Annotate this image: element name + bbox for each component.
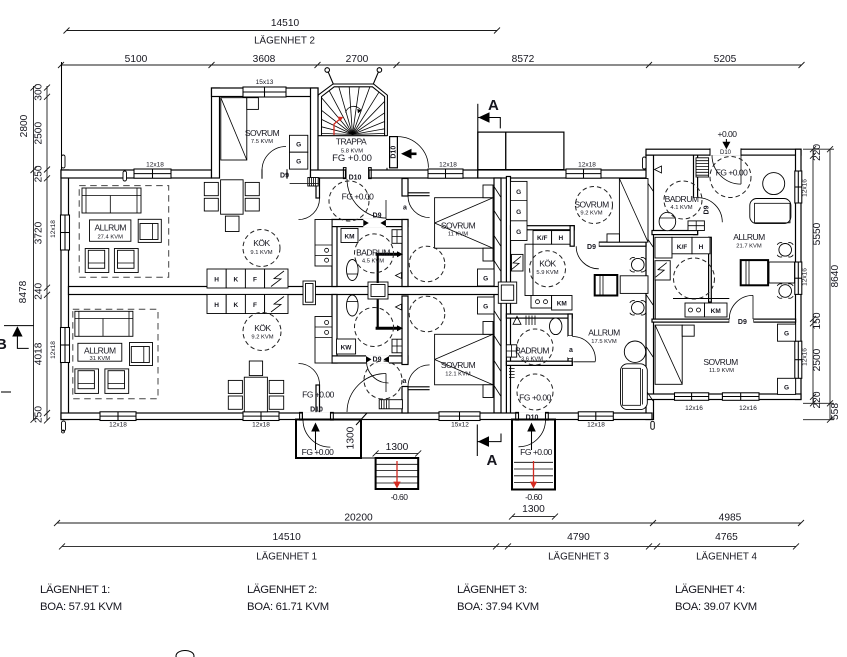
svg-text:12x18: 12x18: [50, 220, 57, 238]
svg-text:F: F: [253, 277, 257, 284]
svg-text:250: 250: [34, 165, 45, 182]
svg-text:12.1 KVM: 12.1 KVM: [445, 372, 471, 378]
svg-text:4.1 KVM: 4.1 KVM: [670, 205, 692, 211]
svg-text:FG +0.00: FG +0.00: [302, 447, 334, 457]
svg-text:12x16: 12x16: [802, 268, 809, 286]
svg-text:ALLRUM: ALLRUM: [588, 328, 620, 338]
svg-text:2800: 2800: [19, 114, 30, 137]
svg-text:FG +0.00: FG +0.00: [716, 168, 748, 178]
svg-text:BADRUM: BADRUM: [515, 346, 549, 356]
svg-text:2500: 2500: [34, 122, 45, 145]
svg-text:B: B: [0, 336, 7, 353]
svg-text:K: K: [233, 277, 238, 284]
svg-text:a: a: [403, 205, 407, 212]
svg-text:LÄGENHET 3:: LÄGENHET 3:: [457, 584, 527, 596]
svg-text:D10: D10: [720, 150, 732, 156]
svg-text:3608: 3608: [253, 54, 276, 65]
svg-text:BOA: 37.94 KVM: BOA: 37.94 KVM: [457, 601, 539, 613]
svg-text:14510: 14510: [271, 18, 300, 29]
svg-text:G: G: [296, 158, 301, 165]
svg-text:2500: 2500: [812, 348, 823, 371]
svg-text:-0.60: -0.60: [525, 492, 543, 502]
svg-text:20200: 20200: [344, 513, 373, 524]
svg-text:12x18: 12x18: [252, 422, 270, 429]
svg-text:LÄGENHET 1: LÄGENHET 1: [256, 552, 317, 563]
svg-text:H: H: [699, 244, 704, 251]
svg-text:9.2 KVM: 9.2 KVM: [251, 335, 273, 341]
svg-text:220: 220: [812, 144, 823, 161]
svg-text:F: F: [253, 302, 257, 309]
svg-text:KÖK: KÖK: [254, 323, 271, 333]
svg-text:A: A: [487, 452, 498, 469]
svg-text:BADRUM: BADRUM: [665, 194, 699, 204]
svg-text:12x18: 12x18: [439, 162, 457, 169]
svg-text:3.6 KVM: 3.6 KVM: [521, 357, 543, 363]
svg-text:D9: D9: [373, 212, 382, 219]
svg-text:D9: D9: [738, 319, 747, 326]
svg-text:12x16: 12x16: [802, 348, 809, 366]
svg-text:12x18: 12x18: [146, 162, 164, 169]
svg-text:ALLRUM: ALLRUM: [94, 223, 126, 233]
svg-text:KM: KM: [711, 308, 721, 315]
svg-text:3720: 3720: [34, 221, 45, 244]
svg-text:250: 250: [34, 406, 45, 423]
svg-text:4018: 4018: [34, 342, 45, 365]
svg-text:ALLRUM: ALLRUM: [733, 232, 765, 242]
svg-text:12x16: 12x16: [685, 405, 703, 412]
svg-text:G: G: [296, 142, 301, 149]
svg-text:12x18: 12x18: [587, 422, 605, 429]
svg-text:KÖK: KÖK: [253, 238, 270, 248]
svg-text:LÄGENHET 2:: LÄGENHET 2:: [247, 584, 317, 596]
svg-text:1300: 1300: [522, 504, 545, 515]
svg-text:A: A: [488, 97, 499, 114]
svg-text:D10: D10: [310, 406, 323, 413]
svg-text:BOA: 61.71 KVM: BOA: 61.71 KVM: [247, 601, 329, 613]
svg-text:21.7 KVM: 21.7 KVM: [736, 244, 762, 250]
svg-text:8640: 8640: [830, 265, 841, 288]
svg-text:150: 150: [812, 312, 823, 329]
svg-text:KÖK: KÖK: [539, 259, 556, 269]
svg-text:D10: D10: [349, 175, 362, 182]
svg-text:12x18: 12x18: [50, 341, 57, 359]
svg-text:D10: D10: [391, 146, 398, 159]
svg-text:FG +0.00: FG +0.00: [302, 390, 334, 400]
svg-text:SOVRUM: SOVRUM: [703, 357, 738, 367]
svg-text:TRAPPA: TRAPPA: [336, 137, 367, 147]
svg-text:5100: 5100: [125, 54, 148, 65]
svg-text:15x13: 15x13: [256, 79, 274, 86]
svg-text:FG +0.00: FG +0.00: [520, 447, 552, 457]
svg-text:BOA: 39.07 KVM: BOA: 39.07 KVM: [675, 601, 757, 613]
svg-text:KW: KW: [341, 345, 353, 352]
svg-text:11 KVM: 11 KVM: [448, 232, 468, 238]
svg-text:31 KVM: 31 KVM: [89, 356, 110, 362]
svg-text:-0.60: -0.60: [391, 492, 409, 502]
svg-text:D9: D9: [280, 172, 289, 179]
svg-text:1300: 1300: [346, 426, 357, 449]
svg-text:SOVRUM: SOVRUM: [441, 221, 476, 231]
svg-text:KM: KM: [344, 234, 354, 241]
svg-text:SOVRUM: SOVRUM: [574, 200, 609, 210]
svg-text:G: G: [483, 304, 488, 311]
svg-text:8572: 8572: [512, 54, 535, 65]
svg-text:5550: 5550: [812, 222, 823, 245]
svg-text:27.4 KVM: 27.4 KVM: [97, 234, 123, 240]
svg-text:KM: KM: [557, 301, 567, 308]
svg-text:H: H: [558, 235, 563, 242]
svg-text:8478: 8478: [18, 280, 29, 303]
svg-text:4985: 4985: [719, 513, 742, 524]
svg-text:G: G: [516, 209, 521, 216]
svg-text:FG +0.00: FG +0.00: [342, 192, 374, 202]
svg-text:15x12: 15x12: [451, 422, 469, 429]
svg-text:a: a: [569, 347, 573, 354]
svg-text:a: a: [403, 378, 407, 385]
svg-text:BADRUM: BADRUM: [356, 248, 390, 258]
svg-text:SOVRUM: SOVRUM: [441, 360, 476, 370]
svg-text:11.9 KVM: 11.9 KVM: [709, 368, 734, 374]
svg-text:12x18: 12x18: [109, 422, 127, 429]
svg-text:558: 558: [830, 403, 841, 420]
svg-text:7.5 KVM: 7.5 KVM: [251, 139, 273, 145]
svg-text:+0.00: +0.00: [717, 129, 737, 139]
svg-text:LÄGENHET 4: LÄGENHET 4: [696, 552, 757, 563]
svg-text:FG +0.00: FG +0.00: [519, 393, 551, 403]
svg-text:240: 240: [34, 282, 45, 299]
svg-text:220: 220: [812, 391, 823, 408]
svg-text:5.9 KVM: 5.9 KVM: [536, 270, 558, 276]
svg-text:12x18: 12x18: [578, 162, 596, 169]
svg-text:14510: 14510: [273, 532, 302, 543]
svg-text:K/F: K/F: [537, 235, 548, 242]
svg-text:H: H: [214, 302, 219, 309]
svg-text:9.1 KVM: 9.1 KVM: [250, 250, 272, 256]
svg-text:FG +0.00: FG +0.00: [332, 153, 372, 164]
svg-text:G: G: [516, 189, 521, 196]
svg-text:4.5 KVM: 4.5 KVM: [362, 259, 384, 265]
svg-text:D9: D9: [587, 244, 596, 251]
svg-text:BOA: 57.91 KVM: BOA: 57.91 KVM: [40, 601, 122, 613]
svg-text:D9: D9: [704, 205, 711, 214]
svg-text:LÄGENHET 3: LÄGENHET 3: [548, 552, 609, 563]
svg-text:1300: 1300: [386, 442, 409, 453]
svg-text:G: G: [784, 331, 789, 338]
svg-text:4790: 4790: [567, 532, 590, 543]
svg-text:G: G: [483, 276, 488, 283]
svg-text:17.5 KVM: 17.5 KVM: [591, 339, 617, 345]
svg-text:G: G: [784, 384, 789, 391]
svg-text:9.2 KVM: 9.2 KVM: [580, 211, 602, 217]
svg-text:K: K: [233, 302, 238, 309]
svg-text:2700: 2700: [346, 54, 369, 65]
svg-text:ALLRUM: ALLRUM: [84, 345, 116, 355]
svg-text:LÄGENHET 2: LÄGENHET 2: [254, 36, 315, 47]
svg-text:12x16: 12x16: [802, 179, 809, 197]
svg-text:SOVRUM: SOVRUM: [245, 128, 280, 138]
svg-text:LÄGENHET 1:: LÄGENHET 1:: [40, 584, 110, 596]
svg-text:4765: 4765: [715, 532, 738, 543]
svg-text:G: G: [516, 229, 521, 236]
svg-text:K/F: K/F: [677, 244, 688, 251]
svg-text:H: H: [214, 277, 219, 284]
svg-text:12x16: 12x16: [739, 405, 757, 412]
svg-text:5205: 5205: [714, 54, 737, 65]
svg-text:LÄGENHET 4:: LÄGENHET 4:: [675, 584, 745, 596]
